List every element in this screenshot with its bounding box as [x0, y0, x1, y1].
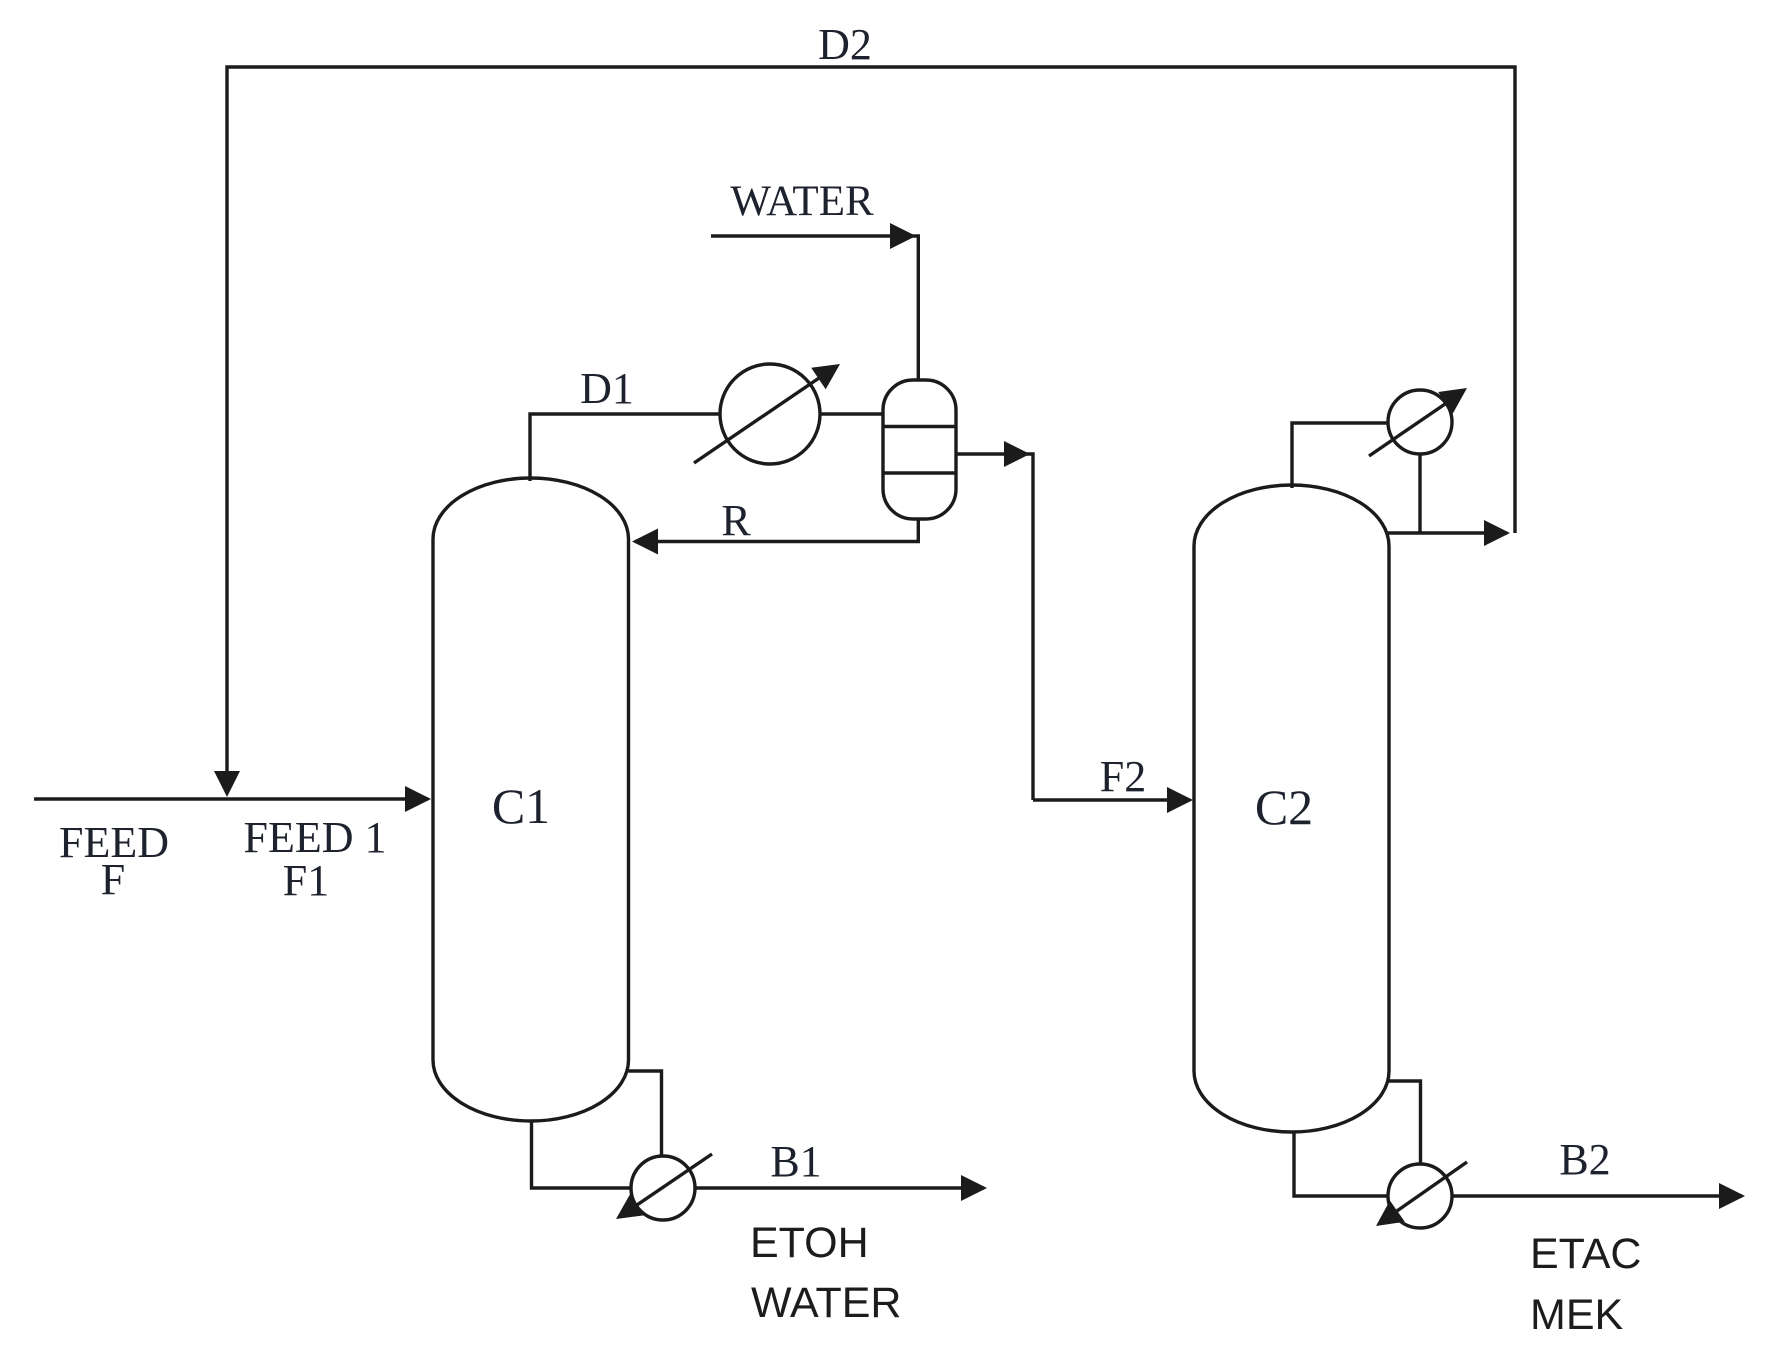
wire F2 into C2 [1033, 798, 1190, 801]
column C1 [433, 478, 629, 1121]
wire C1 bottom to reboiler E3 [532, 1120, 633, 1188]
arrowhead F2 (right) [1167, 787, 1193, 813]
wire B2 out of reboiler E4 [1452, 1194, 1742, 1197]
svg-text:C2: C2 [1255, 779, 1313, 835]
wire condenser to reflux drum [820, 412, 884, 415]
wire FEED into junction and into C1 [34, 797, 428, 800]
reboiler E3 circle [631, 1156, 695, 1220]
wire drum outlet down to F2 [956, 454, 1033, 800]
condenser E1 circle [720, 364, 820, 464]
svg-text:WATER: WATER [730, 178, 874, 225]
wire C2 top to condenser E2 [1292, 423, 1388, 488]
arrowhead WATER (right) [890, 223, 916, 249]
drum internal line 1 [883, 425, 956, 428]
svg-text:ETOH: ETOH [750, 1219, 869, 1267]
wire C2 side to reboiler E4 top [1389, 1081, 1421, 1165]
svg-text:F: F [101, 855, 125, 904]
wire C2 bottom to reboiler E4 [1294, 1131, 1389, 1196]
reboiler E4 circle [1388, 1164, 1452, 1228]
column C2 [1194, 485, 1389, 1132]
wire WATER into drum top [711, 236, 918, 380]
wire D1 from C1 top to condenser [530, 414, 720, 481]
svg-text:D2: D2 [818, 20, 872, 69]
arrowhead B1 (right) [961, 1175, 987, 1201]
wire R reflux from drum bottom to C1 [635, 519, 918, 542]
wire C1 side to reboiler E3 top [629, 1071, 662, 1157]
svg-text:MEK: MEK [1530, 1291, 1624, 1339]
arrowhead FEED1 into C1 (right) [405, 786, 431, 812]
condenser E2 diagonal arrow [1369, 402, 1448, 456]
arrowhead R (left) [632, 529, 658, 555]
arrowhead B2 (right) [1719, 1183, 1745, 1209]
drum internal line 2 [883, 471, 956, 474]
svg-text:B2: B2 [1559, 1135, 1610, 1184]
arrowhead into D2 vertical (right) [1484, 520, 1510, 546]
wire D2 recycle (left vertical, top horizontal, right vertical) [227, 67, 1515, 773]
svg-text:WATER: WATER [751, 1279, 901, 1327]
svg-text:R: R [721, 496, 751, 545]
reboiler E3 diagonal arrow [634, 1154, 712, 1207]
svg-text:F1: F1 [283, 856, 329, 905]
arrowhead D2 into feed junction (down) [214, 771, 240, 797]
wire B1 out of reboiler E3 [695, 1186, 984, 1189]
reflux drum V1 [883, 380, 956, 519]
wire condenser E2 down to D2 line [1418, 454, 1421, 533]
svg-text:FEED 1: FEED 1 [244, 813, 387, 862]
wire C2 distillate to D2 recycle [1388, 531, 1507, 534]
condenser E1 diagonal arrow [694, 376, 822, 463]
arrowhead drum outlet (right) [1004, 441, 1030, 467]
svg-text:B1: B1 [770, 1137, 821, 1186]
svg-text:ETAC: ETAC [1530, 1230, 1642, 1278]
condenser E2 circle [1388, 390, 1452, 454]
svg-text:D1: D1 [580, 364, 634, 413]
reboiler E4 diagonal arrow [1394, 1162, 1467, 1213]
svg-text:F2: F2 [1100, 752, 1146, 801]
svg-text:C1: C1 [492, 778, 550, 834]
